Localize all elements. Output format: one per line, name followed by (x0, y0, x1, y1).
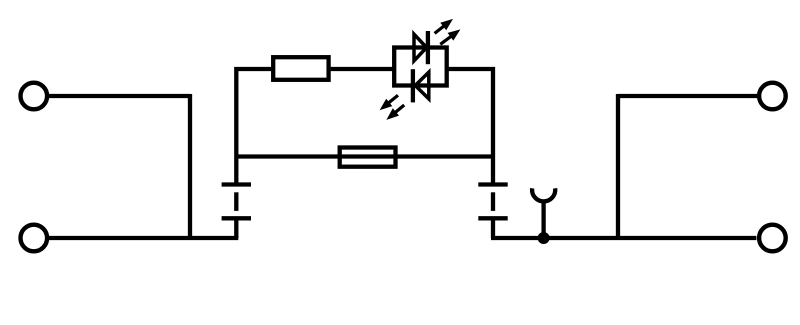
disconnect point right (lower stub) (491, 218, 495, 238)
wire top-left horizontal (49, 94, 190, 98)
LED D1 (top, pointing right) (414, 31, 428, 64)
wire bottom-left horizontal (49, 236, 239, 240)
wire bottom-right horizontal (491, 236, 756, 240)
wire right riser vertical (616, 94, 620, 238)
test socket cup (532, 188, 555, 201)
light emission arrow B2 (bottom) (386, 105, 404, 120)
wire resistor to LED block (331, 67, 395, 71)
wire fuse branch (236, 154, 493, 158)
junction dot (538, 232, 550, 244)
LED block loop (394, 48, 447, 86)
terminal circle bottom-left (21, 225, 48, 252)
terminal circle top-left (21, 83, 48, 110)
disconnect point right bars and dash (478, 185, 507, 219)
disconnect point left bars and dash (222, 185, 251, 219)
resistor R1 (273, 57, 328, 80)
wire left branch riser (disconnect to top branch) (236, 69, 271, 185)
fuse F1 (340, 148, 396, 167)
wire LED block to right riser (447, 69, 493, 185)
LED D2 (bottom, pointing left) (413, 69, 429, 102)
terminal circle top-right (759, 83, 786, 110)
wire left riser vertical (188, 94, 192, 238)
light emission arrow A1 (top) (435, 19, 453, 34)
test socket stem (541, 201, 545, 238)
disconnect point left (lower stub) (234, 218, 238, 238)
light emission arrow B1 (bottom) (380, 95, 398, 110)
wire top-right horizontal (618, 94, 757, 98)
light emission arrow A2 (top) (440, 29, 460, 44)
terminal circle bottom-right (759, 225, 786, 252)
